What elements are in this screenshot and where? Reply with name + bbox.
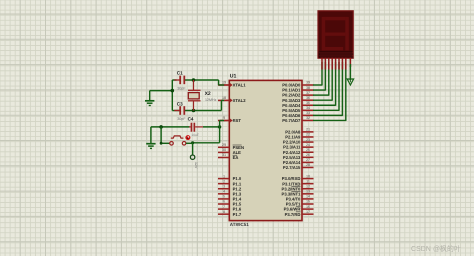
svg-text:17: 17 bbox=[306, 210, 310, 214]
svg-text:30: 30 bbox=[222, 148, 226, 152]
svg-text:P0.7/AD7: P0.7/AD7 bbox=[282, 118, 301, 123]
svg-text:1: 1 bbox=[223, 174, 225, 178]
svg-text:32: 32 bbox=[306, 116, 310, 120]
svg-text:14: 14 bbox=[306, 195, 310, 199]
svg-text:22: 22 bbox=[306, 133, 310, 137]
svg-text:U1: U1 bbox=[230, 74, 237, 80]
svg-text:4: 4 bbox=[223, 190, 225, 194]
svg-text:AT89C51: AT89C51 bbox=[230, 222, 249, 227]
svg-text:C1: C1 bbox=[177, 71, 183, 76]
svg-text:XTAL1: XTAL1 bbox=[233, 83, 247, 88]
svg-text:24: 24 bbox=[306, 143, 310, 147]
svg-text:38: 38 bbox=[306, 86, 310, 90]
svg-text:19: 19 bbox=[222, 81, 226, 85]
svg-text:21: 21 bbox=[306, 128, 310, 132]
svg-text:27: 27 bbox=[306, 158, 310, 162]
svg-text:9: 9 bbox=[223, 116, 225, 120]
svg-text:P2.7/A15: P2.7/A15 bbox=[283, 165, 301, 170]
svg-text:C4: C4 bbox=[188, 117, 194, 122]
svg-text:X2: X2 bbox=[205, 91, 211, 97]
svg-text:P3.7/RD: P3.7/RD bbox=[285, 212, 301, 217]
svg-text:26: 26 bbox=[306, 153, 310, 157]
svg-text:29: 29 bbox=[222, 143, 226, 147]
svg-text:10uF: 10uF bbox=[191, 133, 199, 137]
svg-text:2: 2 bbox=[223, 179, 225, 183]
svg-text:12: 12 bbox=[306, 184, 310, 188]
svg-text:18: 18 bbox=[222, 96, 226, 100]
svg-text:35: 35 bbox=[306, 101, 310, 105]
svg-text:36: 36 bbox=[306, 96, 310, 100]
svg-text:10: 10 bbox=[306, 174, 310, 178]
svg-text:6: 6 bbox=[223, 200, 225, 204]
svg-text:EA: EA bbox=[233, 155, 239, 160]
svg-text:37: 37 bbox=[306, 91, 310, 95]
svg-text:31: 31 bbox=[222, 153, 226, 157]
svg-text:3: 3 bbox=[223, 184, 225, 188]
svg-text:28: 28 bbox=[306, 163, 310, 167]
svg-text:P1.7: P1.7 bbox=[233, 212, 242, 217]
svg-text:16: 16 bbox=[306, 205, 310, 209]
svg-text:12MHz: 12MHz bbox=[205, 98, 217, 102]
svg-text:RST: RST bbox=[233, 118, 242, 123]
svg-text:12V: 12V bbox=[194, 162, 198, 169]
svg-text:39: 39 bbox=[306, 81, 310, 85]
svg-text:33: 33 bbox=[306, 111, 310, 115]
svg-text:5: 5 bbox=[223, 195, 225, 199]
svg-text:13: 13 bbox=[306, 190, 310, 194]
svg-text:7: 7 bbox=[223, 205, 225, 209]
svg-text:34: 34 bbox=[306, 106, 310, 110]
svg-text:25: 25 bbox=[306, 148, 310, 152]
svg-text:23: 23 bbox=[306, 138, 310, 142]
svg-text:11: 11 bbox=[306, 179, 310, 183]
svg-text:C3: C3 bbox=[177, 101, 183, 106]
svg-text:XTAL2: XTAL2 bbox=[233, 98, 247, 103]
svg-text:30pF: 30pF bbox=[177, 117, 186, 121]
svg-text:30pF: 30pF bbox=[177, 86, 186, 90]
svg-text:8: 8 bbox=[223, 210, 225, 214]
svg-text:15: 15 bbox=[306, 200, 310, 204]
